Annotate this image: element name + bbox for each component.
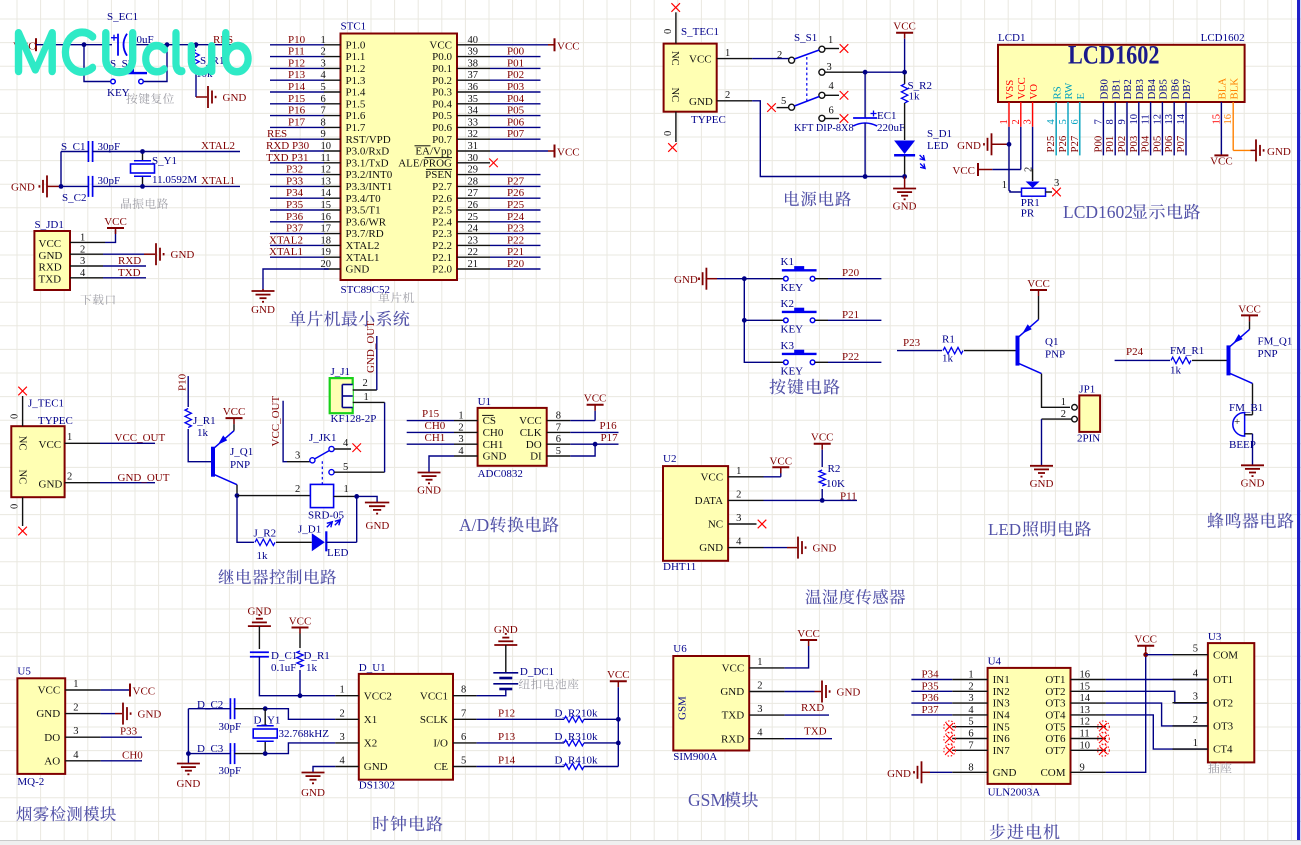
svg-text:J_D1: J_D1: [298, 524, 321, 536]
wire collector to buzzer: [1252, 383, 1254, 414]
svg-text:OT3: OT3: [1213, 721, 1234, 733]
svg-text:8: 8: [461, 685, 466, 696]
svg-text:LED: LED: [927, 140, 948, 152]
ground GND (reset): [196, 86, 246, 108]
svg-text:PNP: PNP: [230, 459, 250, 471]
svg-text:P11: P11: [288, 46, 305, 58]
svg-text:TXD P31: TXD P31: [266, 152, 308, 164]
svg-text:Q1: Q1: [1045, 336, 1058, 348]
LCD pin15 BLA wire to VCC: [1210, 102, 1233, 168]
svg-text:VCC: VCC: [289, 616, 312, 628]
wire pin1 to VCC: [70, 230, 116, 242]
power port VCC (J_Q1): [223, 406, 246, 431]
resistor FM_R1 1k: [1170, 345, 1227, 377]
KF128 pin1 wire: [353, 392, 385, 403]
svg-text:5: 5: [781, 96, 786, 107]
wire Q1 collector to JP1: [1042, 374, 1071, 408]
svg-text:GND: GND: [11, 182, 35, 194]
MCU left pin wires: [270, 45, 341, 269]
node junction right: [165, 42, 170, 47]
svg-text:DB4: DB4: [1146, 79, 1158, 100]
power port VCC (stepper): [1134, 634, 1157, 655]
title LCD1602 xianshi dianlu: [1063, 202, 1200, 222]
MCU right pin wires: [457, 45, 555, 269]
svg-text:S_D1: S_D1: [927, 128, 952, 140]
svg-text:GND: GND: [993, 767, 1017, 779]
connector S_TEC1 TYPEC: [664, 26, 726, 126]
svg-text:P14: P14: [498, 755, 516, 767]
svg-text:1: 1: [1002, 180, 1007, 191]
svg-text:GND: GND: [36, 708, 60, 720]
title wenshidu chuanganqi: [806, 589, 906, 605]
wire contact5 up to KF128 pin1: [384, 402, 386, 472]
svg-text:NC: NC: [669, 51, 680, 66]
wire junction to GND: [357, 496, 377, 502]
contact3 wire: [825, 71, 905, 73]
svg-text:P06: P06: [1163, 135, 1175, 152]
push button S_S2 KEY: [84, 45, 167, 99]
svg-text:P0.7: P0.7: [432, 134, 452, 146]
svg-text:P0.0: P0.0: [432, 51, 452, 63]
LCD pin16 BLK wire to GND: [1233, 102, 1250, 150]
LCD pins 1-3 wires: [1009, 102, 1033, 191]
svg-text:P1.2: P1.2: [346, 63, 366, 75]
wire XTAL1: [93, 185, 240, 187]
MCU pin names: [346, 39, 453, 275]
svg-text:2: 2: [1193, 715, 1198, 726]
svg-text:D_DC1: D_DC1: [520, 666, 554, 678]
power port VCC (power circuit): [893, 21, 916, 72]
no-connect X bottom (J_TEC1): [18, 527, 27, 536]
svg-text:S_C2: S_C2: [62, 192, 86, 204]
J_TEC1 pin2 GND_OUT: [65, 472, 170, 485]
U6 pin2 wire to GND: [749, 691, 821, 693]
svg-text:1: 1: [1193, 738, 1198, 749]
svg-text:GND: GND: [720, 686, 744, 698]
svg-text:P2.0: P2.0: [432, 264, 452, 276]
ground GND (ADC): [418, 472, 441, 474]
svg-text:LCD1602: LCD1602: [1063, 202, 1133, 222]
LCD pins 4-6 wires: [1056, 102, 1080, 155]
svg-text:OT6: OT6: [1045, 733, 1066, 745]
capacitor S_EC1 10uF: [107, 11, 154, 56]
svg-text:3: 3: [1054, 178, 1059, 189]
svg-text:LED: LED: [988, 520, 1021, 539]
svg-text:P34: P34: [286, 187, 304, 199]
svg-text:DHT11: DHT11: [663, 561, 696, 573]
capacitor S_C1 30pF: [61, 141, 120, 162]
DS1302 GND pin4 wire: [313, 767, 359, 773]
wire K3 to P22: [828, 361, 881, 363]
svg-text:S_S1: S_S1: [794, 32, 817, 44]
svg-text:P2.1: P2.1: [432, 252, 452, 264]
svg-text:1: 1: [364, 392, 369, 403]
push button K3 KEY: [770, 340, 828, 378]
svg-text:PR: PR: [1021, 208, 1035, 220]
node junction collector: [235, 493, 240, 498]
svg-text:1: 1: [1061, 397, 1066, 408]
svg-text:GND: GND: [813, 543, 837, 555]
S_TEC1 top pin 0: [663, 12, 676, 43]
U6 pin4 wire: [749, 738, 832, 740]
node junction xtal top: [140, 149, 145, 154]
node junction pullup rail: [616, 741, 621, 746]
contact5 wire with X: [767, 103, 789, 112]
svg-text:P21: P21: [842, 309, 859, 321]
MCU pin20 GND wire: [263, 269, 329, 290]
capacitor EC1 220uF: [853, 72, 905, 176]
wire pin4 TXD: [70, 277, 146, 279]
svg-text:GND: GND: [689, 96, 713, 108]
svg-text:DS1302: DS1302: [359, 780, 395, 792]
svg-text:P27: P27: [507, 175, 525, 187]
svg-text:P0.1: P0.1: [432, 63, 452, 75]
svg-text:0: 0: [663, 29, 674, 34]
svg-text:220uF: 220uF: [877, 122, 905, 134]
svg-text:VCC: VCC: [104, 216, 127, 228]
svg-text:VCC: VCC: [1210, 156, 1233, 168]
svg-text:4: 4: [340, 756, 346, 767]
svg-text:TYPEC: TYPEC: [691, 114, 726, 126]
U2 pin3 NC wire: [728, 523, 756, 525]
svg-text:4: 4: [829, 81, 835, 92]
svg-text:2: 2: [777, 50, 782, 61]
svg-text:P04: P04: [1140, 135, 1152, 152]
resistor J_R1 1k: [185, 409, 216, 462]
J_TEC1 pin1 VCC_OUT: [65, 432, 166, 444]
svg-text:1: 1: [828, 35, 833, 46]
power port VCC (DHT11): [769, 455, 792, 473]
svg-text:P11: P11: [840, 491, 857, 503]
J_TEC1 top pin 0: [10, 396, 23, 426]
svg-text:D_Y1: D_Y1: [254, 715, 281, 727]
svg-text:P2.2: P2.2: [432, 240, 452, 252]
svg-text:P2.7: P2.7: [432, 181, 452, 193]
svg-text:LCD1: LCD1: [998, 32, 1026, 44]
svg-text:4: 4: [73, 750, 79, 761]
svg-text:P3.4/T0: P3.4/T0: [346, 193, 382, 205]
svg-text:LCD1602: LCD1602: [1201, 32, 1245, 44]
resistor D_R1 1k: [297, 650, 330, 696]
svg-text:U6: U6: [673, 643, 687, 655]
power port VCC (Q1): [1027, 278, 1050, 320]
overline PROG: [425, 157, 453, 159]
svg-text:1: 1: [67, 432, 72, 443]
sheet border right: [1297, 0, 1300, 841]
svg-text:P37: P37: [922, 704, 940, 716]
svg-text:ADC0832: ADC0832: [478, 468, 523, 480]
svg-text:U4: U4: [988, 656, 1002, 668]
svg-text:J_R2: J_R2: [254, 528, 277, 540]
svg-text:CH0: CH0: [425, 420, 446, 432]
ground GND (DS1302): [301, 773, 325, 800]
svg-text:P36: P36: [286, 211, 304, 223]
svg-text:P07: P07: [507, 128, 525, 140]
svg-text:GND: GND: [364, 761, 388, 773]
svg-text:4: 4: [736, 537, 742, 548]
svg-text:7: 7: [461, 708, 466, 719]
svg-text:OT1: OT1: [1213, 674, 1233, 686]
svg-text:P02: P02: [507, 69, 524, 81]
node junction bottom rail: [902, 174, 907, 179]
node junction xtal bottom: [140, 184, 145, 189]
svg-text:1k: 1k: [257, 550, 269, 562]
capacitor S_C2 30pF: [62, 175, 120, 204]
svg-text:XTAL1: XTAL1: [269, 246, 303, 258]
svg-text:GND: GND: [837, 687, 861, 699]
U4 COM pin9 wire: [1071, 655, 1146, 773]
svg-text:OT1: OT1: [1045, 674, 1065, 686]
IC U4 ULN2003A: [968, 656, 1090, 799]
svg-text:P22: P22: [842, 351, 859, 363]
U5 pin1 wire to VCC: [65, 689, 129, 691]
svg-text:DB6: DB6: [1169, 79, 1181, 100]
svg-text:VCC: VCC: [38, 685, 61, 697]
svg-text:D_R4: D_R4: [555, 755, 582, 767]
svg-text:3: 3: [757, 704, 762, 715]
svg-text:BLA: BLA: [1217, 78, 1229, 100]
svg-text:CH1: CH1: [483, 439, 504, 451]
wire J_Q1 collector down: [236, 485, 238, 496]
svg-text:GND: GND: [1241, 477, 1265, 489]
J_TEC1 bottom pin 0: [10, 497, 23, 526]
svg-text:LED: LED: [327, 547, 348, 559]
svg-text:VCC: VCC: [893, 21, 916, 33]
svg-text:P16: P16: [600, 420, 618, 432]
svg-text:P00: P00: [507, 46, 525, 58]
ground GND (download): [156, 243, 194, 265]
svg-text:CH0: CH0: [122, 750, 143, 762]
svg-text:SCLK: SCLK: [420, 714, 448, 726]
svg-text:DB5: DB5: [1158, 79, 1170, 99]
title fengmingqi dianlu: [1208, 513, 1294, 529]
power port VCC (GSM): [797, 628, 820, 646]
svg-text:P1.5: P1.5: [346, 98, 366, 110]
no-connect X (DHT NC): [758, 520, 767, 529]
IC LCD1 LCD1602 body: [998, 32, 1245, 102]
svg-text:VO: VO: [1028, 84, 1040, 100]
svg-text:EC1: EC1: [877, 110, 897, 122]
svg-text:P1.0: P1.0: [346, 39, 366, 51]
wire XTAL2: [93, 151, 240, 153]
svg-text:P35: P35: [922, 680, 940, 692]
svg-text:P1.3: P1.3: [346, 75, 366, 87]
resistor S_R1 10k: [193, 45, 225, 97]
svg-text:J_TEC1: J_TEC1: [28, 398, 64, 410]
ground GND (LCD VSS): [957, 133, 1009, 155]
ground GND (MQ2): [122, 703, 124, 725]
svg-text:VCC: VCC: [133, 686, 156, 698]
svg-text:GND: GND: [1030, 478, 1054, 490]
wire collector to relay coil: [237, 495, 310, 497]
svg-text:OT7: OT7: [1045, 745, 1066, 757]
svg-text:P2.4: P2.4: [432, 216, 452, 228]
svg-text:U2: U2: [663, 453, 676, 465]
svg-text:11.0592M: 11.0592M: [152, 174, 197, 186]
svg-text:VCC: VCC: [797, 628, 820, 640]
wire P10 down: [187, 376, 189, 407]
svg-text:TXD: TXD: [804, 726, 827, 738]
svg-text:32.768kHZ: 32.768kHZ: [279, 728, 330, 740]
KF128 pin2 wire: [353, 378, 377, 390]
svg-text:VCC_OUT: VCC_OUT: [115, 432, 166, 444]
wire X2: [265, 743, 335, 754]
svg-text:D_C1: D_C1: [271, 650, 297, 662]
node junction rail K2: [742, 318, 747, 323]
wire pin3 RXD: [70, 265, 146, 267]
resistor R2 10K: [819, 450, 845, 501]
power port VCC (LCD): [952, 163, 1020, 177]
svg-text:P32: P32: [286, 164, 303, 176]
crystal S_Y1 11.0592M: [131, 152, 198, 187]
svg-text:OT2: OT2: [1045, 686, 1065, 698]
LED S_D1: [894, 128, 952, 177]
svg-text:2: 2: [736, 489, 741, 500]
svg-text:D_R1: D_R1: [304, 650, 330, 662]
svg-text:CLK: CLK: [520, 427, 542, 439]
overline EA: [415, 145, 431, 147]
U5 pin2 wire to GND: [65, 713, 122, 715]
title shizhong dianlu: [373, 816, 442, 832]
U5 pin3 wire: [65, 736, 142, 738]
wire JP1 pin2 to GND: [1042, 419, 1073, 466]
svg-text:P34: P34: [922, 669, 940, 681]
ground GND (crystal): [11, 175, 61, 197]
svg-text:RS: RS: [1051, 86, 1063, 99]
svg-text:DB1: DB1: [1110, 79, 1122, 99]
svg-text:GSM: GSM: [676, 696, 688, 720]
title dianyuan dianlu: [785, 191, 851, 206]
svg-text:1k: 1k: [942, 353, 954, 365]
svg-text:S_EC1: S_EC1: [107, 11, 138, 23]
node junction pullup rail: [616, 717, 621, 722]
svg-text:P36: P36: [922, 692, 940, 704]
MCU right net labels: [507, 46, 525, 270]
contact4 wire with X: [824, 91, 848, 100]
S_TEC1 pin1 wire: [717, 48, 789, 59]
transistor Q1 PNP: [1018, 320, 1066, 374]
svg-text:P20: P20: [842, 267, 860, 279]
svg-text:COM: COM: [1213, 649, 1238, 661]
U5 pin4 wire: [65, 760, 142, 762]
svg-text:P07: P07: [1175, 135, 1187, 152]
U2 pin4 GND wire: [728, 547, 797, 549]
svg-text:P3.0/RxD: P3.0/RxD: [346, 146, 390, 158]
U4 unused outputs X: [1098, 721, 1110, 756]
svg-text:P25: P25: [507, 199, 525, 211]
ground GND (D_C1): [247, 606, 271, 650]
DS1302 pin6 wire: [453, 742, 564, 744]
svg-text:P01: P01: [507, 57, 524, 69]
svg-text:10k: 10k: [581, 731, 598, 743]
svg-text:P27: P27: [1069, 135, 1081, 152]
node junction D_R1 tap: [298, 693, 303, 698]
svg-text:VCC: VCC: [769, 455, 792, 467]
title anjian dianlu: [770, 379, 840, 395]
svg-text:GND: GND: [366, 520, 390, 532]
capacitor D_C3 30pF: [188, 743, 265, 777]
svg-text:1: 1: [344, 484, 349, 495]
push button K1 KEY: [770, 256, 828, 294]
relay switch J_JK1: [287, 432, 385, 484]
DS1302 pin5 wire: [453, 766, 564, 768]
node junction D_C2-xtal: [263, 706, 268, 711]
svg-text:P25: P25: [1045, 136, 1057, 153]
svg-text:P26: P26: [507, 187, 525, 199]
svg-text:U5: U5: [17, 666, 31, 678]
no-connect X bottom: [668, 143, 677, 152]
svg-text:NC: NC: [669, 88, 680, 103]
svg-text:IN2: IN2: [993, 686, 1010, 698]
svg-text:OT5: OT5: [1045, 721, 1066, 733]
svg-text:P0.5: P0.5: [432, 110, 452, 122]
DS1302 pin7 wire: [453, 718, 564, 720]
no-connect X top (J_TEC1): [18, 387, 27, 396]
svg-text:GND: GND: [674, 274, 698, 286]
svg-text:3: 3: [827, 62, 832, 73]
svg-text:TXD: TXD: [118, 267, 141, 279]
battery D_DC1: [493, 666, 554, 689]
svg-text:GND: GND: [247, 606, 271, 618]
ground GND (GSM): [821, 681, 823, 703]
battery to pin8 wire: [453, 689, 506, 696]
power port VCC (MQ2): [130, 684, 155, 698]
svg-text:3: 3: [340, 732, 345, 743]
power port VCC (reset): [13, 38, 36, 52]
svg-text:VCC: VCC: [39, 238, 62, 250]
svg-text:3: 3: [73, 726, 78, 737]
wire buzzer to GND: [1252, 434, 1254, 466]
svg-text:2: 2: [73, 703, 78, 714]
svg-text:JP1: JP1: [1079, 384, 1095, 396]
transistor J_Q1 PNP: [213, 431, 253, 485]
U4 GND pin8 wire: [922, 771, 988, 773]
svg-text:P1.7: P1.7: [346, 122, 366, 134]
svg-text:GND: GND: [39, 479, 63, 491]
svg-text:ULN2003A: ULN2003A: [988, 787, 1041, 799]
ground GND (buzzer): [1241, 464, 1264, 466]
wire left rail crystal: [60, 152, 62, 187]
svg-text:GND: GND: [251, 304, 275, 316]
no-connect X top: [671, 3, 680, 12]
svg-text:P20: P20: [507, 258, 525, 270]
svg-text:P10: P10: [177, 373, 189, 391]
svg-text:RST/VPD: RST/VPD: [346, 134, 391, 146]
contact6 wire with X: [824, 114, 848, 123]
connector S_JD1 download port: [34, 219, 86, 290]
node junction COM-VCC: [1143, 652, 1148, 657]
svg-text:2PIN: 2PIN: [1077, 433, 1100, 445]
svg-text:1: 1: [725, 48, 730, 59]
svg-text:CH0: CH0: [483, 427, 504, 439]
ground GND (ULN): [887, 761, 921, 783]
svg-text:VCC: VCC: [1027, 278, 1050, 290]
svg-text:P1.6: P1.6: [346, 110, 366, 122]
svg-text:NC: NC: [708, 519, 723, 531]
svg-text:KEY: KEY: [107, 87, 130, 99]
svg-text:GND: GND: [699, 542, 723, 554]
svg-text:DB0: DB0: [1099, 79, 1111, 99]
U1 pin5 wire: [547, 444, 595, 456]
svg-text:P3.3/INT1: P3.3/INT1: [346, 181, 393, 193]
IC U1 ADC0832: [458, 396, 561, 480]
svg-text:IN1: IN1: [993, 674, 1010, 686]
svg-text:10K: 10K: [826, 478, 845, 490]
svg-text:VCC: VCC: [1238, 303, 1261, 315]
IC D_U1 DS1302: [340, 662, 467, 792]
logo MCUclub: [16, 30, 251, 75]
svg-text:0: 0: [663, 131, 674, 136]
